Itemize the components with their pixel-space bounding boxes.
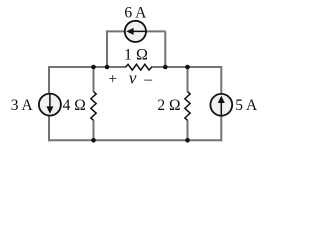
svg-text:1 Ω: 1 Ω <box>124 46 148 63</box>
svg-text:5 A: 5 A <box>235 97 258 114</box>
svg-text:+: + <box>108 71 117 88</box>
svg-text:v: v <box>129 69 137 88</box>
svg-text:2 Ω: 2 Ω <box>157 97 180 114</box>
svg-text:6 A: 6 A <box>124 5 147 22</box>
svg-text:4 Ω: 4 Ω <box>63 97 86 114</box>
svg-text:–: – <box>143 71 152 88</box>
svg-text:3 A: 3 A <box>11 97 34 114</box>
